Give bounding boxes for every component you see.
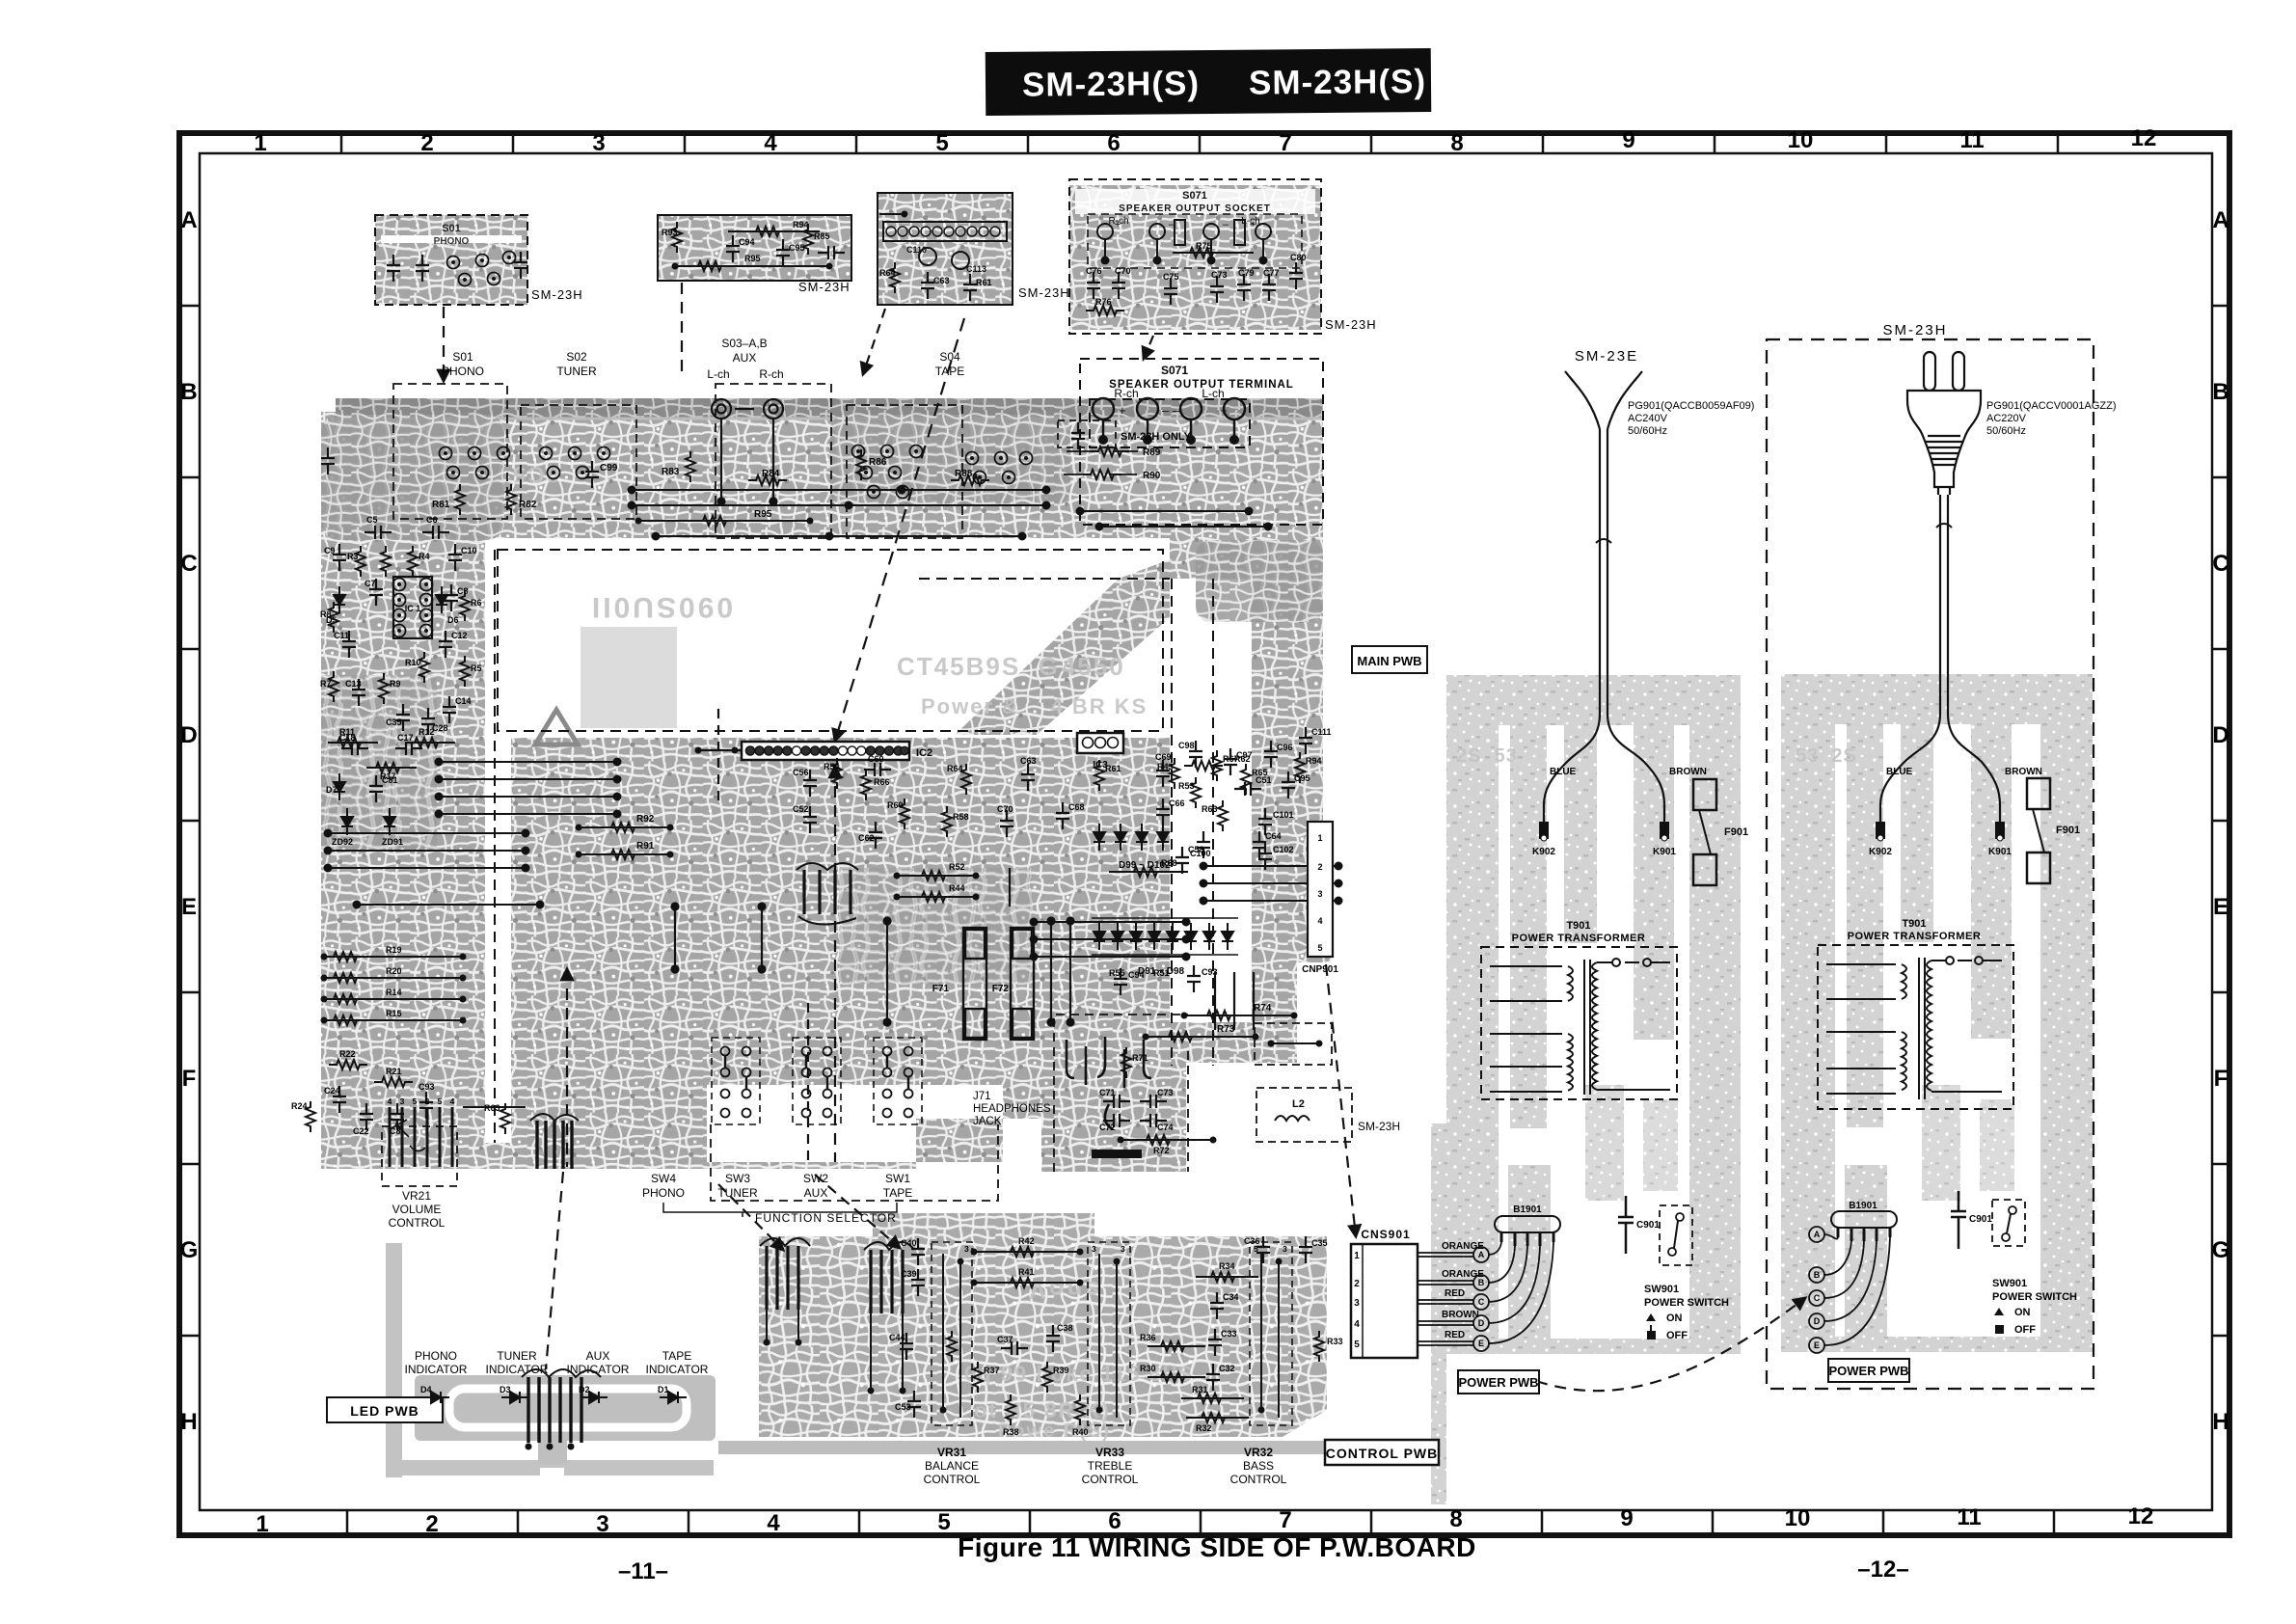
svg-text:ZD92: ZD92 [332,837,353,847]
svg-text:K902: K902 [1532,847,1555,857]
svg-text:F901: F901 [2056,825,2080,836]
svg-text:C75: C75 [1163,272,1179,282]
svg-text:4: 4 [450,1096,455,1106]
CNS901 wires to B1901 [1488,1242,1553,1343]
resistor R6 [460,590,482,621]
svg-text:L-ch: L-ch [707,367,729,381]
function selector labels [642,1172,912,1200]
resistor R37 [973,1362,1000,1393]
svg-text:K902: K902 [1869,847,1892,857]
svg-text:SM-23E: SM-23E [1575,348,1638,365]
VR33 dashed box [1088,1242,1130,1425]
svg-text:R76: R76 [1095,297,1112,307]
svg-text:R12: R12 [419,727,435,737]
svg-text:SW2: SW2 [803,1172,828,1185]
capacitor C8b [390,1103,404,1136]
callout CNP901 to CNS901 [1318,844,1320,955]
svg-text:D: D [1814,1316,1821,1326]
capacitor C111 [1299,727,1332,754]
callout S01 fragment to board [443,307,445,381]
svg-text:R-ch: R-ch [1114,387,1138,400]
svg-text:BASS: BASS [1243,1459,1274,1473]
svg-text:D4: D4 [420,1385,432,1394]
svg-text:R38: R38 [1003,1427,1019,1437]
diode row D99-D102 [1094,824,1171,871]
CNP901 connector [1302,822,1338,975]
SM-23H ONLY box [1058,420,1116,447]
border frame inner [200,153,2212,1510]
svg-text:CONTROL: CONTROL [389,1216,446,1230]
grid numbers top [254,125,2156,156]
svg-text:C113: C113 [966,264,986,274]
svg-text:H: H [180,1409,197,1435]
resistor R54 [824,758,842,789]
power PWB right copper [1781,674,2093,1352]
svg-text:C64: C64 [1265,831,1282,841]
MAIN PWB label [1352,646,1427,673]
svg-text:C32: C32 [1219,1364,1235,1373]
resistor R20 [321,966,467,983]
svg-text:3: 3 [1121,1244,1125,1254]
svg-text:9: 9 [1620,1505,1633,1531]
resistor R24 [291,1101,315,1132]
svg-text:ON: ON [2014,1307,2031,1318]
capacitor C32 [1206,1364,1235,1391]
svg-text:TAPE: TAPE [935,365,964,378]
svg-text:B: B [2212,379,2228,405]
J71 dashed outline [1054,1015,1188,1172]
svg-text:C73: C73 [1211,270,1228,280]
svg-text:VOLUME: VOLUME [392,1203,442,1216]
VR21 label [389,1189,446,1230]
VR21 dashed box [382,1126,457,1186]
svg-text:TREBLE: TREBLE [1088,1459,1133,1473]
resistor R52 [894,862,980,880]
T901 dashed box left [1481,947,1677,1099]
svg-text:C96: C96 [1277,743,1293,752]
svg-text:1: 1 [256,1511,268,1537]
resistor R36 [1140,1333,1205,1351]
svg-text:B1901: B1901 [1849,1201,1877,1211]
svg-text:R81: R81 [432,500,450,510]
fragment2 capacitor C94 [726,235,755,262]
vertical wires near switches [1048,918,1255,1031]
capacitor C101 [1258,808,1294,835]
svg-text:T901: T901 [1566,920,1590,932]
resistor R84 [748,469,787,485]
svg-text:3: 3 [1354,1298,1360,1309]
svg-text:B: B [1814,1270,1821,1280]
svg-text:R42: R42 [1018,1236,1035,1246]
capacitor C28 [421,708,448,735]
resistor R12 [405,727,455,747]
svg-text:PHONO: PHONO [442,365,484,378]
VR labels control board [924,1446,1287,1486]
grid letters left/right [180,207,2230,1435]
capacitor C52 [793,804,817,833]
svg-text:8: 8 [1450,130,1463,156]
svg-text:2: 2 [1354,1279,1360,1289]
svg-text:IC 1: IC 1 [405,604,421,613]
resistor R92 [576,814,674,832]
J71 headphone jack contacts [1067,1037,1151,1158]
capacitor C40 [901,1238,925,1265]
control comb cluster 2 [864,1242,914,1394]
socket fragment capacitor C80 [1289,253,1307,289]
svg-text:R10: R10 [405,658,421,667]
capacitor C93c [1187,965,1218,992]
resistor R63 [463,1103,526,1134]
svg-text:7: 7 [1279,130,1291,156]
svg-text:C24: C24 [324,1086,340,1096]
svg-text:R61: R61 [1105,764,1121,773]
svg-text:PHONO: PHONO [434,236,470,247]
T901 transformer symbol right [1826,957,2002,1099]
capacitor C8 [445,584,469,611]
svg-text:G: G [180,1237,199,1263]
svg-text:VR32: VR32 [1244,1446,1273,1459]
capacitor C56 [793,768,817,797]
capacitor C36 [1244,1236,1270,1263]
svg-text:BROWN: BROWN [1442,1310,1479,1320]
svg-text:1: 1 [1354,1251,1360,1261]
svg-text:POWER TRANSFORMER: POWER TRANSFORMER [1512,933,1646,944]
socket pins group 5 [966,452,1033,484]
F901 fuse right [2027,778,2080,883]
PG901 cord text right [1986,400,2117,437]
resistor R68 [1109,858,1188,877]
resistor R67 [1212,750,1239,781]
diode D3 [500,1385,528,1403]
svg-text:090SU0II: 090SU0II [589,591,733,623]
svg-text:3: 3 [592,130,605,156]
svg-text:5: 5 [438,1096,443,1106]
svg-text:ON: ON [1666,1313,1683,1324]
svg-text:C80: C80 [1290,253,1307,262]
svg-text:R37: R37 [984,1366,1000,1375]
svg-text:R52: R52 [949,862,965,872]
capacitor C69 [1155,752,1172,787]
fuse F72 [992,928,1034,1040]
svg-text:CONTROL: CONTROL [1082,1473,1139,1486]
svg-text:R94: R94 [1306,756,1322,766]
svg-text:R43: R43 [1157,762,1174,771]
svg-text:2: 2 [425,1096,430,1106]
svg-text:R22: R22 [339,1049,356,1059]
svg-text:R64: R64 [947,764,963,773]
svg-text:R89: R89 [1143,447,1161,458]
resistor R3 [347,546,365,577]
warning triangle mark [535,710,578,744]
capacitor C9 [324,544,346,571]
svg-text:1: 1 [1317,833,1322,843]
socket labels S01 S02 S03 S04 [442,337,964,381]
svg-text:C77: C77 [1263,268,1280,278]
svg-text:H: H [2212,1409,2228,1435]
capacitor C22 [353,1103,373,1136]
svg-text:POWER TRANSFORMER: POWER TRANSFORMER [1848,931,1982,942]
svg-text:CONTROL PWB: CONTROL PWB [1326,1446,1439,1461]
svg-text:C36: C36 [1244,1236,1260,1246]
socket S01 pins [440,447,510,479]
diode D7 [326,773,345,800]
svg-text:C35: C35 [1311,1238,1328,1248]
fragment3 resistor R61b [963,274,992,301]
resistor R22 [329,1049,367,1069]
capacitor C97 [1224,748,1253,775]
svg-text:R85: R85 [814,231,830,241]
svg-text:+: + [1119,403,1126,418]
resistor R9 [379,673,401,704]
socket fragment resistor R76 [1086,297,1124,315]
svg-text:R39: R39 [1053,1366,1069,1375]
pcb fragment S071 speaker output socket [1069,179,1377,334]
resistor R83 [662,451,695,482]
resistor R19 [321,945,467,961]
svg-text:R4: R4 [419,552,430,561]
resistor R32 [1186,1413,1249,1433]
resistor R39 [1042,1362,1069,1393]
svg-text:C93: C93 [419,1082,435,1092]
svg-text:–11–: –11– [618,1558,668,1584]
S03 jacks L-ch R-ch [712,399,783,505]
svg-text:C70: C70 [1115,266,1131,276]
resistor R34 [1196,1261,1258,1282]
capacitor C94 [1114,968,1145,995]
svg-text:R36: R36 [1140,1333,1156,1342]
svg-text:R82: R82 [519,500,537,510]
function selector dashed outline [711,1124,998,1201]
svg-text:D3: D3 [500,1385,511,1394]
svg-text:F901: F901 [1724,826,1748,838]
fragment2 capacitor C96 [818,246,845,259]
svg-text:IC2: IC2 [916,747,932,759]
svg-text:8: 8 [1449,1506,1462,1532]
svg-text:D: D [180,722,197,748]
plug PG901 right [1907,352,1981,495]
main pwb dashed outline around white cutout [495,550,1213,1143]
callout switch to control cluster 1 [718,1184,783,1250]
svg-text:CONTROL: CONTROL [924,1473,981,1486]
wire bus mid-left 4 rows [436,759,621,818]
POWER PWB label right [1828,1359,1909,1382]
svg-text:VR33: VR33 [1095,1446,1124,1459]
capacitor C37 [997,1335,1028,1355]
svg-text:C: C [1478,1297,1485,1307]
resistor R30 [1140,1364,1205,1382]
resistor R44 [894,883,980,902]
L2 dashed box [1256,1088,1400,1142]
svg-text:SPEAKER OUTPUT SOCKET: SPEAKER OUTPUT SOCKET [1119,203,1271,214]
vertical wire pairs center [672,868,1011,1026]
svg-text:10: 10 [1785,1505,1811,1531]
capacitor C70 [997,804,1013,837]
svg-text:R53: R53 [1178,781,1195,791]
LED PWB left strip [386,1243,402,1477]
svg-text:SW901: SW901 [1644,1284,1679,1295]
svg-text:D99 ~ D102: D99 ~ D102 [1119,860,1171,871]
svg-text:R73: R73 [1217,1024,1235,1035]
SM-23E cord bare ends [1565,371,1642,429]
svg-text:BLUE: BLUE [1550,767,1577,777]
svg-text:SM-23H: SM-23H [1018,285,1070,300]
resistor R38 [1003,1394,1019,1437]
svg-text:C8: C8 [457,586,469,596]
capacitor C74 [1140,1114,1174,1132]
svg-text:R90: R90 [1143,471,1161,481]
svg-text:C6: C6 [426,515,438,525]
svg-text:R44: R44 [949,883,965,893]
svg-text:C10: C10 [461,546,477,555]
resistor R5 [460,656,482,687]
resistor R72 [1118,1135,1217,1155]
cord terminals right K902 K901 [1869,822,2012,857]
svg-text:A: A [2212,207,2228,233]
resistor R62 [1184,754,1251,771]
cord right [1880,495,2000,835]
S01 fragment caps [387,252,527,282]
svg-text:R55: R55 [1109,968,1125,978]
svg-text:VR21: VR21 [402,1189,431,1203]
control PWB bottom strip [718,1441,1437,1454]
main PWB copper area [321,412,1331,1172]
svg-text:C56: C56 [793,768,809,777]
callout switch to control cluster 2 [815,1175,900,1248]
VR21 pin numbers [388,1096,455,1106]
callout S071 socket to terminal [1144,336,1153,359]
svg-text:R95: R95 [744,254,761,263]
svg-text:ot H5 8R(K): ot H5 8R(K) [974,1398,1111,1422]
svg-text:C901: C901 [1969,1214,1992,1225]
svg-text:TUNER: TUNER [497,1349,537,1363]
resistor R1 [381,546,391,577]
svg-text:S04: S04 [939,350,960,364]
svg-text:R63: R63 [1202,804,1218,814]
svg-text:C70: C70 [997,804,1013,814]
svg-text:C52: C52 [793,804,809,814]
svg-text:CONTROL: CONTROL [1230,1473,1287,1486]
svg-text:SM-23H: SM-23H [1325,317,1377,332]
svg-text:C44: C44 [889,1333,905,1342]
diode D6 [436,586,459,625]
svg-text:5: 5 [1317,943,1322,953]
svg-text:11: 11 [1959,127,1984,153]
capacitor C80 [321,447,335,474]
svg-text:R93: R93 [662,228,678,237]
svg-text:F71: F71 [932,984,950,994]
svg-text:SM-23H ONLY: SM-23H ONLY [1121,431,1192,443]
svg-text:D6: D6 [447,615,459,625]
svg-text:C34: C34 [1223,1292,1239,1302]
svg-text:AC220V: AC220V [1986,413,2027,424]
switch SW3 contacts [793,1038,841,1124]
svg-text:BROWN: BROWN [2005,767,2042,777]
VR31 dashed box [932,1242,972,1425]
T901 transformer symbol left [1490,959,1670,1095]
svg-text:C: C [1814,1293,1821,1303]
svg-text:R6: R6 [471,598,482,608]
resistor R82 [506,484,537,515]
svg-text:3: 3 [964,1244,969,1254]
T901 dashed box right [1818,945,2013,1109]
C901 right [1951,1191,1992,1249]
svg-text:–: – [1169,219,1175,230]
capacitor C11 [334,631,356,658]
resistor R31 [1181,1385,1244,1403]
svg-text:OFF: OFF [1666,1330,1688,1341]
svg-text:Power & 4 BR KS: Power & 4 BR KS [921,694,1148,718]
svg-text:R83: R83 [662,467,680,477]
svg-text:2: 2 [420,130,433,156]
svg-text:C40: C40 [901,1238,917,1248]
svg-text:F: F [2214,1066,2228,1092]
svg-text:3: 3 [1317,889,1322,899]
svg-text:R92: R92 [636,814,655,825]
capacitor C66 [1156,798,1185,826]
capacitor C96 [1264,741,1293,768]
diode D2 [579,1385,608,1403]
svg-text:–: – [1173,403,1180,418]
svg-text:S01: S01 [442,223,461,234]
IC2 [695,742,933,760]
wire color labels [1442,1241,1484,1340]
svg-text:R71: R71 [1132,1053,1148,1063]
svg-text:ORANGE: ORANGE [1442,1269,1484,1280]
wire bus R95 lower [653,533,1026,540]
function selector bracket [663,1203,897,1217]
svg-text:4: 4 [1354,1319,1360,1330]
svg-text:C38: C38 [1057,1323,1073,1333]
svg-text:C111: C111 [1311,727,1332,737]
svg-text:PHONO: PHONO [642,1186,685,1200]
capacitor C81 [369,775,398,802]
svg-text:S03–A,B: S03–A,B [721,337,767,350]
svg-text:2S 53: 2S 53 [1456,745,1518,767]
svg-text:F: F [182,1066,197,1092]
svg-text:S071: S071 [1182,190,1207,202]
svg-text:5: 5 [935,130,948,156]
svg-text:FUNCTION SELECTOR: FUNCTION SELECTOR [755,1211,897,1225]
CNS901 circle terminals A-E [1473,1247,1489,1351]
svg-text:6: 6 [1107,130,1120,156]
SW901 switch symbol right [1992,1200,2025,1246]
svg-text:A: A [1814,1230,1821,1239]
capacitor C86 (SM-23H only) [1071,422,1085,449]
svg-text:2: 2 [1317,862,1322,872]
B1901 right [1831,1201,1897,1241]
svg-text:12: 12 [2128,1503,2154,1529]
svg-text:R64: R64 [879,268,896,278]
svg-text:50/60Hz: 50/60Hz [1628,425,1667,437]
svg-text:SM-23H: SM-23H [1358,1120,1400,1133]
svg-text:3: 3 [1283,1244,1287,1254]
LE dashed box [1255,1023,1332,1065]
F901 fuse left [1693,779,1748,885]
gray swath across cutout [955,559,1170,735]
svg-text:5: 5 [937,1509,950,1535]
main PWB darker patches [321,415,1323,984]
svg-text:J71: J71 [973,1091,991,1102]
capacitor C95 [1282,771,1310,798]
svg-text:C66: C66 [1169,798,1185,808]
svg-text:C110: C110 [906,245,927,255]
capacitor C35b [1299,1236,1328,1263]
grid numbers bottom [256,1503,2153,1537]
circle terminals right A-E [1809,1227,1824,1353]
svg-text:C68: C68 [1068,802,1085,812]
capacitor C24 [324,1086,346,1113]
fragment2 resistor R94 [728,220,820,236]
